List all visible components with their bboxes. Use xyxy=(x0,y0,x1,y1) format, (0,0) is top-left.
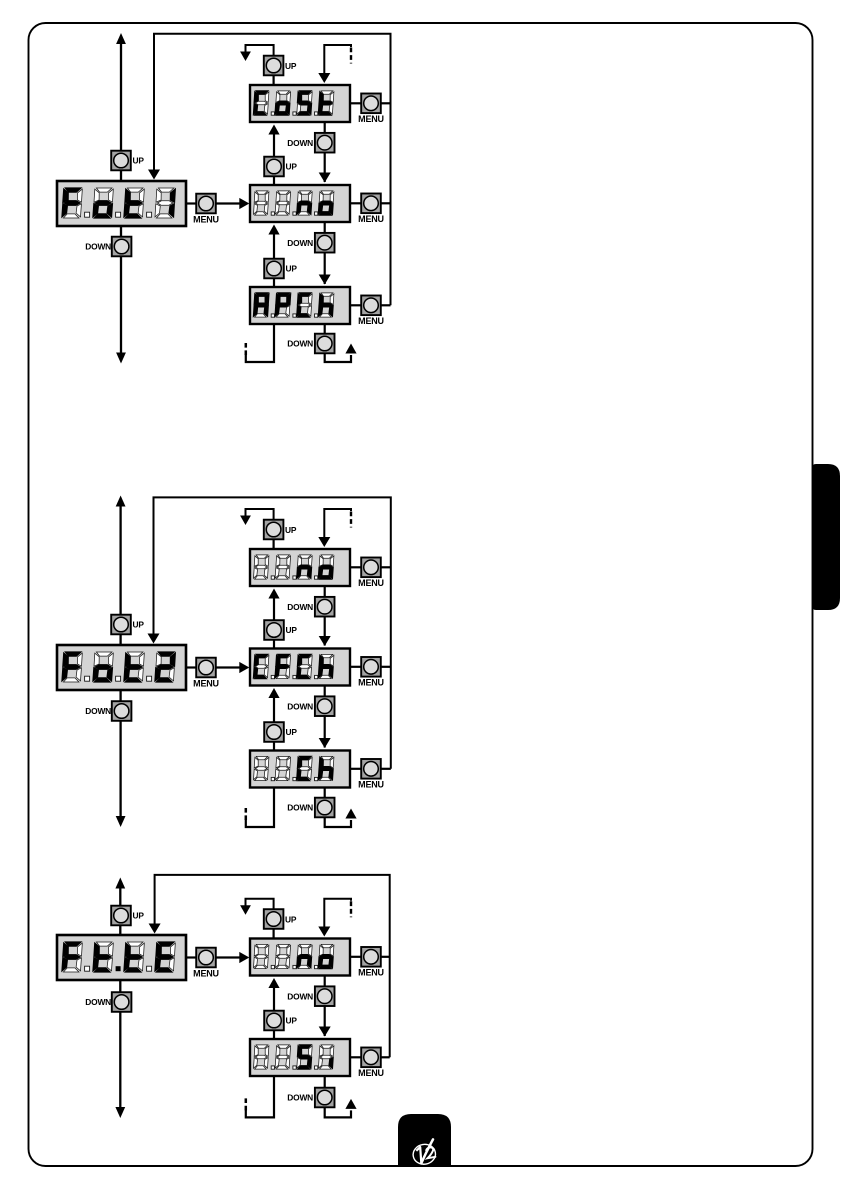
wire d3 return line xyxy=(155,875,390,1057)
svg-text:UP: UP xyxy=(286,625,298,635)
wire d2 DOWN wire 1 xyxy=(324,686,326,748)
label d2 CFCh MENU xyxy=(358,678,384,688)
display d3 Si xyxy=(250,1039,350,1076)
label d3 UP label 0 xyxy=(286,1016,298,1026)
button d3 bottom DOWN xyxy=(315,1088,335,1108)
arrowhead d3 up arrow 0 xyxy=(268,978,279,988)
wire d3 left vertical xyxy=(119,887,121,1110)
wire d2 Ch MENU to bus xyxy=(381,768,391,770)
wire d2 top-left bracket xyxy=(246,509,274,520)
button d3 left UP xyxy=(111,906,131,926)
button d3 left MENU xyxy=(196,948,216,968)
button d1 APCh MENU xyxy=(361,296,381,316)
wire d3 display to MENU xyxy=(186,956,196,958)
svg-text:DOWN: DOWN xyxy=(287,991,313,1001)
button d2 CFCh MENU xyxy=(361,657,381,677)
button d1 left UP xyxy=(111,151,131,171)
wire d1 MENU to submenu xyxy=(216,202,246,204)
label d2 bottom DOWN label xyxy=(287,803,313,813)
arrowhead d1 left-down xyxy=(116,353,126,364)
wire d3 Si MENU to bus xyxy=(381,1056,390,1058)
arrowhead d1 top-left bracket arrow xyxy=(240,52,251,62)
svg-text:MENU: MENU xyxy=(358,1068,384,1078)
wire d3 no3 MENU to bus xyxy=(381,956,390,958)
wire d3 UP wire 0 xyxy=(273,986,275,1040)
label d2 DOWN label 1 xyxy=(287,701,313,711)
wire d2 bottom-right wrap xyxy=(325,817,351,827)
button d2 top UP xyxy=(264,520,284,540)
wire d2 no2 MENU to bus xyxy=(381,566,391,568)
arrowhead d2 into no2 top xyxy=(318,537,330,547)
button d1 left DOWN xyxy=(112,237,132,257)
button d2 left DOWN xyxy=(112,701,132,721)
wire d2 Ch to MENU xyxy=(350,768,361,770)
svg-text:UP: UP xyxy=(286,1016,298,1026)
svg-text:MENU: MENU xyxy=(358,114,384,124)
svg-text:UP: UP xyxy=(286,162,298,172)
button d2 DOWN 1 xyxy=(315,696,335,716)
wire d1 return line xyxy=(154,34,391,306)
svg-text:MENU: MENU xyxy=(358,678,384,688)
display d1 APCh xyxy=(250,287,350,324)
svg-text:UP: UP xyxy=(133,620,145,630)
wire d3 DOWN wire 0 xyxy=(324,976,326,1037)
wire d1 UP wire 1 xyxy=(273,232,275,287)
wire d3 Si to MENU xyxy=(350,1056,361,1058)
button d3 UP 0 xyxy=(264,1011,284,1031)
arrowhead d1 up arrow 0 xyxy=(268,125,279,135)
arrowhead d1 up arrow 1 xyxy=(268,225,279,235)
svg-text:UP: UP xyxy=(285,61,297,71)
wire d1 UP wire 0 xyxy=(273,132,275,185)
svg-text:DOWN: DOWN xyxy=(85,997,111,1007)
svg-text:DOWN: DOWN xyxy=(287,602,313,612)
svg-text:DOWN: DOWN xyxy=(287,138,313,148)
svg-text:DOWN: DOWN xyxy=(287,803,313,813)
wire d2 left vertical xyxy=(119,505,121,819)
label d1 APCh MENU xyxy=(358,316,384,326)
svg-text:UP: UP xyxy=(285,525,297,535)
wire d1 no1 MENU to bus xyxy=(381,202,391,204)
wire d2 top UP to display xyxy=(273,539,275,549)
button d2 UP 1 xyxy=(264,722,284,742)
button d2 UP 0 xyxy=(264,620,284,640)
label d1 UP label 0 xyxy=(286,162,298,172)
svg-text:MENU: MENU xyxy=(358,214,384,224)
wire d2 top-right bracket xyxy=(324,509,351,537)
label d3 DOWN xyxy=(85,997,111,1007)
label d1 top UP label xyxy=(285,61,297,71)
svg-text:DOWN: DOWN xyxy=(287,701,313,711)
arrowhead d1 into submenu xyxy=(239,198,249,209)
label d2 UP label 1 xyxy=(286,727,298,737)
wire d1 DOWN wire 1 xyxy=(324,222,326,284)
svg-text:MENU: MENU xyxy=(358,968,384,978)
button d1 DOWN 1 xyxy=(315,233,335,253)
svg-text:UP: UP xyxy=(286,727,298,737)
label d1 DOWN label 0 xyxy=(287,138,313,148)
arrowhead d2 up arrow 0 xyxy=(268,589,279,599)
wire d1 top-right bracket dash xyxy=(350,48,352,64)
wire d1 left vertical xyxy=(120,42,122,355)
wire d2 last DOWN wire xyxy=(324,788,326,808)
button d3 left DOWN xyxy=(112,992,132,1012)
wire d1 APCh to MENU xyxy=(350,304,361,306)
wire d2 DOWN wire 0 xyxy=(324,586,326,646)
display d1 no1 xyxy=(250,185,350,222)
arrowhead d2 wrap arrow xyxy=(345,809,356,819)
wire d1 top UP to display xyxy=(273,75,275,85)
button d3 Si MENU xyxy=(361,1048,381,1068)
label d2 DOWN xyxy=(85,706,111,716)
label d3 no3 MENU xyxy=(358,968,384,978)
svg-text:DOWN: DOWN xyxy=(287,339,313,349)
wire d1 top-right bracket xyxy=(324,45,351,73)
svg-text:UP: UP xyxy=(285,914,297,924)
button d1 UP 1 xyxy=(264,259,284,279)
label d1 UP xyxy=(133,156,145,166)
svg-text:DOWN: DOWN xyxy=(85,242,111,252)
display d2 Ch xyxy=(250,751,350,788)
svg-text:MENU: MENU xyxy=(358,316,384,326)
display d3 no3 xyxy=(250,939,350,976)
wire d1 no1 to MENU xyxy=(350,202,361,204)
arrowhead d2 down arrow 1 xyxy=(319,738,331,748)
arrowhead d2 left-up xyxy=(116,496,126,507)
wire d1 bottom-left wrap dash xyxy=(245,341,248,355)
wire d1 bottom-right wrap xyxy=(325,353,351,362)
display d1 Fot1 xyxy=(57,181,186,226)
button d1 CoSt MENU xyxy=(361,94,381,114)
wire d2 CFCh MENU to bus xyxy=(381,666,391,668)
svg-text:MENU: MENU xyxy=(358,780,384,790)
wire d3 top-right bracket xyxy=(324,899,351,927)
label d3 top UP label xyxy=(285,914,297,924)
label d3 DOWN label 0 xyxy=(287,991,313,1001)
button d1 top UP xyxy=(264,56,284,76)
arrowhead d2 down arrow 0 xyxy=(319,636,331,646)
arrowhead d2 up arrow 1 xyxy=(268,688,279,698)
svg-text:MENU: MENU xyxy=(358,578,384,588)
wire d1 CoSt to MENU xyxy=(350,102,361,104)
wire d1 top-left bracket xyxy=(246,45,274,56)
arrowhead d1 return arrow xyxy=(148,170,160,180)
arrowhead d3 left-up xyxy=(115,878,125,889)
label d3 MENU xyxy=(193,968,219,978)
display d2 CFCh xyxy=(250,649,350,686)
wire d2 display to MENU xyxy=(186,666,196,668)
display d1 CoSt xyxy=(250,85,350,122)
button d2 left UP xyxy=(111,615,131,635)
arrowhead d2 into submenu xyxy=(239,662,249,673)
button d1 UP 0 xyxy=(264,157,284,177)
right edge tab xyxy=(812,464,840,610)
label d2 top UP label xyxy=(285,525,297,535)
arrowhead d1 down arrow 1 xyxy=(319,275,331,285)
wire d2 CFCh to MENU xyxy=(350,666,361,668)
button d1 no1 MENU xyxy=(361,194,381,214)
button d1 left MENU xyxy=(196,194,216,214)
button d2 left MENU xyxy=(196,658,216,678)
label d3 bottom DOWN label xyxy=(287,1093,313,1103)
wire d3 bottom-left wrap dash xyxy=(245,1096,248,1110)
display d2 Fot2 xyxy=(57,645,186,690)
wire d2 return line xyxy=(154,497,391,768)
wire d3 top-left bracket xyxy=(246,899,274,910)
label d1 bottom DOWN label xyxy=(287,339,313,349)
arrowhead d1 down arrow 0 xyxy=(319,173,331,183)
button d3 DOWN 0 xyxy=(315,986,335,1006)
label d1 no1 MENU xyxy=(358,214,384,224)
button d2 no2 MENU xyxy=(361,558,381,578)
wire d1 CoSt MENU to bus xyxy=(381,102,391,104)
wire d2 bottom-left wrap dash xyxy=(245,806,248,820)
wire d2 UP wire 0 xyxy=(273,596,275,649)
label d2 no2 MENU xyxy=(358,578,384,588)
wire d3 bottom-right wrap xyxy=(325,1107,351,1117)
arrowhead d1 wrap arrow xyxy=(345,344,356,354)
svg-text:MENU: MENU xyxy=(193,678,219,688)
arrowhead d2 left-down xyxy=(116,816,126,827)
label d2 UP xyxy=(133,620,145,630)
label d1 UP label 1 xyxy=(286,264,298,274)
label d3 Si MENU xyxy=(358,1068,384,1078)
arrowhead d1 left-up xyxy=(116,33,126,44)
label d2 MENU xyxy=(193,678,219,688)
label d1 CoSt MENU xyxy=(358,114,384,124)
wire d2 top-right bracket dash xyxy=(350,512,352,528)
button d2 Ch MENU xyxy=(361,759,381,779)
wire d2 MENU to submenu xyxy=(216,666,246,668)
svg-text:MENU: MENU xyxy=(193,214,219,224)
arrowhead d2 top-left bracket arrow xyxy=(240,516,251,526)
wire d3 top-right bracket dash xyxy=(350,901,352,917)
svg-text:UP: UP xyxy=(286,264,298,274)
arrowhead d3 left-down xyxy=(115,1107,125,1118)
wire d2 UP wire 1 xyxy=(273,696,275,751)
wire d3 bottom-left wrap xyxy=(246,1076,274,1117)
wire d3 no3 to MENU xyxy=(350,956,361,958)
arrowhead d3 into submenu xyxy=(239,952,249,963)
svg-text:UP: UP xyxy=(133,911,145,921)
button d3 no3 MENU xyxy=(361,947,381,967)
wire d1 APCh MENU to bus xyxy=(381,304,391,306)
svg-text:DOWN: DOWN xyxy=(287,238,313,248)
label d2 Ch MENU xyxy=(358,780,384,790)
label d2 UP label 0 xyxy=(286,625,298,635)
wire d3 last DOWN wire xyxy=(324,1076,326,1098)
svg-text:DOWN: DOWN xyxy=(287,1093,313,1103)
V2 logo tab xyxy=(398,1114,451,1166)
arrowhead d3 return arrow xyxy=(149,924,161,934)
wire d1 DOWN wire 0 xyxy=(324,122,326,182)
svg-text:DOWN: DOWN xyxy=(85,706,111,716)
arrowhead d3 into no3 top xyxy=(318,927,330,937)
display d2 no2 xyxy=(250,549,350,586)
label d1 MENU xyxy=(193,214,219,224)
button d1 bottom DOWN xyxy=(315,334,335,354)
wire d2 bottom-left wrap xyxy=(246,788,274,828)
wire d1 bottom-left wrap xyxy=(246,324,274,362)
button d2 DOWN 0 xyxy=(315,597,335,617)
wire d3 top UP to display xyxy=(273,929,275,939)
button d1 DOWN 0 xyxy=(315,133,335,153)
label d2 DOWN label 0 xyxy=(287,602,313,612)
arrowhead d3 wrap arrow xyxy=(345,1099,356,1109)
wire d3 MENU to submenu xyxy=(216,956,246,958)
label d3 UP xyxy=(133,911,145,921)
arrowhead d3 down arrow 0 xyxy=(319,1027,331,1037)
button d2 bottom DOWN xyxy=(315,798,335,818)
label d1 DOWN label 1 xyxy=(287,238,313,248)
wire d1 display to MENU xyxy=(186,202,196,204)
wire d1 last DOWN wire xyxy=(324,324,326,344)
svg-text:UP: UP xyxy=(133,156,145,166)
display d3 FttE xyxy=(57,935,186,980)
label d1 DOWN xyxy=(85,242,111,252)
arrowhead d2 return arrow xyxy=(148,634,160,644)
arrowhead d3 top-left bracket arrow xyxy=(240,905,251,915)
wire d2 no2 to MENU xyxy=(350,566,361,568)
svg-text:MENU: MENU xyxy=(193,968,219,978)
arrowhead d1 into CoSt top xyxy=(318,73,330,83)
button d3 top UP xyxy=(264,909,284,929)
